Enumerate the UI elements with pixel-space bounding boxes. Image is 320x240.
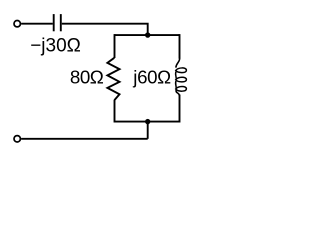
wire right branch upper lead [179, 34, 181, 59]
wire bottom rail [115, 121, 180, 123]
inductor L1 connector loop2-loop3 [175, 81, 178, 88]
svg-text:−j30Ω: −j30Ω [30, 36, 81, 57]
inductor L1 loop 3 [176, 87, 187, 92]
svg-text:j60Ω: j60Ω [132, 67, 171, 88]
inductor L1 loop 2 [176, 77, 187, 82]
wire bottom stub [147, 122, 149, 139]
wire right branch lower lead [179, 95, 181, 123]
inductor L1 loop 1 [176, 68, 187, 73]
capacitor C1 plate right [60, 14, 62, 31]
capacitor C1 plate left [53, 14, 55, 31]
inductor L1 bottom hook [176, 90, 179, 96]
resistor R1 80ohm zigzag [107, 58, 119, 100]
wire top from terminal to capacitor [21, 23, 53, 25]
terminal top-left [14, 21, 20, 27]
terminal bottom-left [14, 136, 20, 142]
svg-text:80Ω: 80Ω [70, 66, 104, 87]
wire from capacitor to top corner [62, 24, 148, 35]
inductor L1 j60ohm top hook [176, 58, 180, 68]
wire left branch upper lead [114, 34, 116, 58]
wire left branch lower lead [114, 100, 116, 123]
wire top rail [115, 34, 180, 36]
node A (top junction) [145, 32, 150, 37]
wire bottom from stub to terminal [21, 138, 148, 140]
inductor L1 connector loop1-loop2 [175, 72, 178, 79]
node B (bottom junction) [145, 119, 150, 124]
